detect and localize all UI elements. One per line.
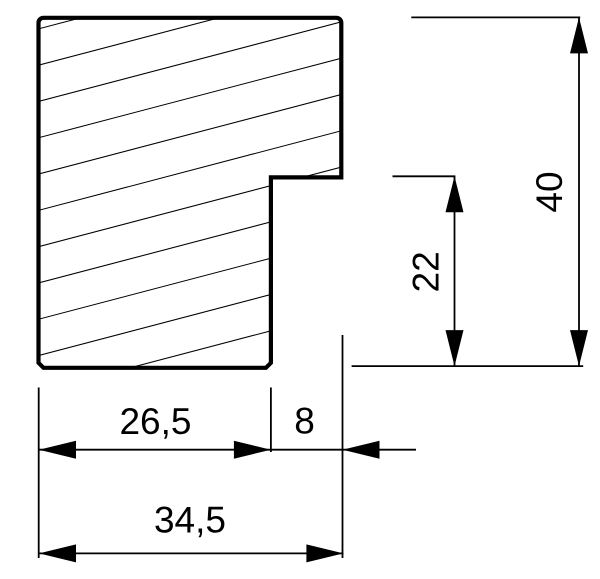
arrowhead dim 40 up — [570, 17, 588, 53]
arrowhead dim 22 up — [446, 176, 464, 212]
hatch line 4 — [30, 55, 355, 140]
svg-text:22: 22 — [406, 251, 447, 292]
hatch line 1 — [30, 0, 355, 31]
hatch line 8 — [30, 200, 355, 285]
extension line top for dim 40 — [411, 16, 580, 18]
hatch line 10 — [30, 272, 355, 357]
profile outline — [39, 18, 342, 368]
svg-text:8: 8 — [294, 401, 315, 442]
dimension line 40 vertical — [578, 17, 580, 366]
hatch line 5 — [30, 91, 355, 176]
hatch line 3 — [30, 18, 355, 103]
hatch lines clipped to profile — [30, 0, 355, 394]
extension line middle (x=270.5) — [270, 388, 272, 453]
dimension line 22 vertical — [454, 176, 456, 366]
hatch line 2 — [30, 0, 355, 67]
extension line top for dim 22 — [393, 175, 456, 177]
extension line left (x=38.5) — [38, 388, 40, 559]
arrowhead dim 8 pointing left from outside — [343, 441, 380, 459]
arrowhead dim 26,5 left — [39, 441, 76, 459]
arrowhead dim 40 down — [570, 330, 588, 366]
extension line right (x=342.5) — [342, 335, 344, 558]
hatch line 6 — [30, 127, 355, 212]
dimension line 34,5 horizontal — [39, 552, 343, 554]
hatch line 9 — [30, 236, 355, 321]
hatch line 11 — [30, 309, 355, 394]
arrowhead dim 34,5 left — [39, 544, 76, 562]
arrowhead dim 22 down — [446, 330, 464, 366]
svg-text:40: 40 — [529, 171, 570, 212]
dimension line 26,5 / 8 horizontal — [39, 449, 416, 451]
extension line bottom (profile bottom plane) — [352, 365, 584, 367]
arrowhead dim 34,5 right — [306, 544, 343, 562]
svg-text:26,5: 26,5 — [119, 401, 191, 442]
arrowhead dim 26,5 right — [234, 441, 271, 459]
hatch line 7 — [30, 164, 355, 249]
svg-text:34,5: 34,5 — [154, 500, 226, 541]
